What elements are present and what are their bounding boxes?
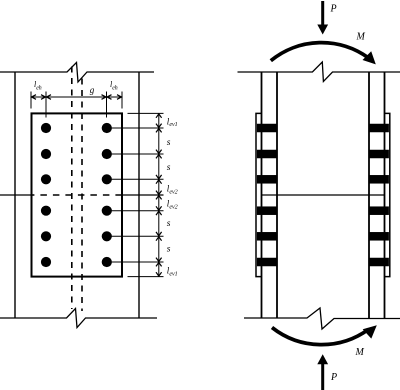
load arrow P top <box>317 1 328 35</box>
moment arc M bottom <box>272 328 369 345</box>
bolt band row 4 left <box>257 206 277 215</box>
svg-text:lev1: lev1 <box>167 266 178 278</box>
left flange outer face <box>261 72 263 318</box>
bolt band row 3 left <box>257 175 277 184</box>
seg s 4 <box>156 237 162 241</box>
right splice plate (side view) <box>385 113 390 276</box>
extension line bolt row 3 <box>111 178 164 180</box>
moment arrowhead M bottom <box>363 325 377 338</box>
seg l_ev1 top <box>156 114 162 118</box>
bolt row 4 left <box>41 206 51 216</box>
bolt row 4 right <box>102 206 112 216</box>
chain arrowheads <box>156 114 162 276</box>
column right flange edge <box>138 72 140 318</box>
bolt row 1 left <box>41 123 51 133</box>
top dimension extension line at right bolt gauge <box>106 92 108 118</box>
extension line at plate bottom <box>128 276 164 278</box>
wire: upper column cut line with break symbol (right diagram) <box>238 62 400 82</box>
hidden web line dashed left <box>71 67 73 310</box>
bolt band row 6 right <box>369 258 389 267</box>
wire: lower column cut line with break symbol (right diagram) <box>244 308 400 329</box>
seg s 3 <box>156 211 162 215</box>
extension line at plate top <box>128 112 164 114</box>
svg-text:g: g <box>90 85 95 95</box>
svg-text:s: s <box>167 245 171 255</box>
column left flange edge <box>14 72 16 318</box>
extension line bolt row 2 <box>111 153 164 155</box>
seg l_ev2 bottom <box>156 196 162 200</box>
seg s 1 <box>156 129 162 133</box>
splice line solid right segment / extension to dimension chain <box>122 194 164 196</box>
bolt band row 1 right <box>369 124 389 133</box>
dimension line g <box>46 95 107 100</box>
svg-text:lev1: lev1 <box>167 116 178 128</box>
bolt row 6 right <box>102 257 112 267</box>
bolt band row 1 left <box>257 124 277 133</box>
wire: upper column cut line with break symbol (left diagram) <box>0 63 154 83</box>
splice line hidden behind plate (dashed) <box>32 194 123 196</box>
seg s 2 <box>156 155 162 159</box>
top dimension extension line at plate left edge <box>30 92 32 109</box>
bolt row 3 right <box>102 174 112 184</box>
moment arrowhead M top <box>363 51 376 64</box>
wire: lower column cut line with break symbol (left diagram) <box>0 309 157 328</box>
svg-text:leh: leh <box>110 80 118 91</box>
svg-text:P: P <box>330 4 337 15</box>
extension line bolt row 5 <box>111 235 164 237</box>
right flange outer face <box>384 72 386 318</box>
top dimension extension line at left bolt gauge <box>45 92 47 118</box>
bolt row 6 left <box>41 257 51 267</box>
left splice plate (side view) <box>256 113 262 276</box>
bolt band row 5 left <box>257 232 277 241</box>
svg-text:P: P <box>330 372 337 383</box>
dimension line l_eh left <box>31 95 46 100</box>
seg l_ev2 top <box>156 180 162 184</box>
bolt band row 2 right <box>369 150 389 159</box>
extension line bolt row 1 <box>111 127 164 129</box>
svg-text:lev2: lev2 <box>167 184 178 196</box>
splice line between column shafts (side view) <box>262 194 385 196</box>
vertical dimension chain line <box>158 113 160 276</box>
extension line bolt row 4 <box>111 210 164 212</box>
bolt band row 6 left <box>257 258 277 267</box>
hidden web line dashed right <box>81 79 83 312</box>
splice plate outline <box>32 113 123 276</box>
top dimension extension line at plate right edge <box>121 92 123 109</box>
moment arc M top <box>271 43 369 61</box>
bolt band row 3 right <box>369 175 389 184</box>
load arrow P bottom <box>317 354 328 390</box>
bolt row 3 left <box>41 174 51 184</box>
bolt band row 2 left <box>257 150 277 159</box>
svg-text:leh: leh <box>34 80 42 91</box>
right flange inner face <box>368 72 370 318</box>
seg l_ev1 bottom <box>156 263 162 267</box>
extension line bolt row 6 <box>111 261 164 263</box>
svg-text:M: M <box>356 32 366 43</box>
bolt row 2 right <box>102 149 112 159</box>
svg-text:s: s <box>167 138 171 148</box>
svg-text:M: M <box>355 347 365 358</box>
bolt band row 4 right <box>369 206 389 215</box>
svg-text:s: s <box>167 163 171 173</box>
splice line solid left segment <box>0 194 32 196</box>
bolt row 5 right <box>102 231 112 241</box>
dimension line l_eh right <box>107 95 123 100</box>
bolt row 5 left <box>41 231 51 241</box>
bolt row 2 left <box>41 149 51 159</box>
bolt band row 5 right <box>369 232 389 241</box>
bolt row 1 right <box>102 123 112 133</box>
svg-text:lev2: lev2 <box>167 199 178 211</box>
left flange inner face <box>276 72 278 318</box>
svg-text:s: s <box>167 219 171 229</box>
